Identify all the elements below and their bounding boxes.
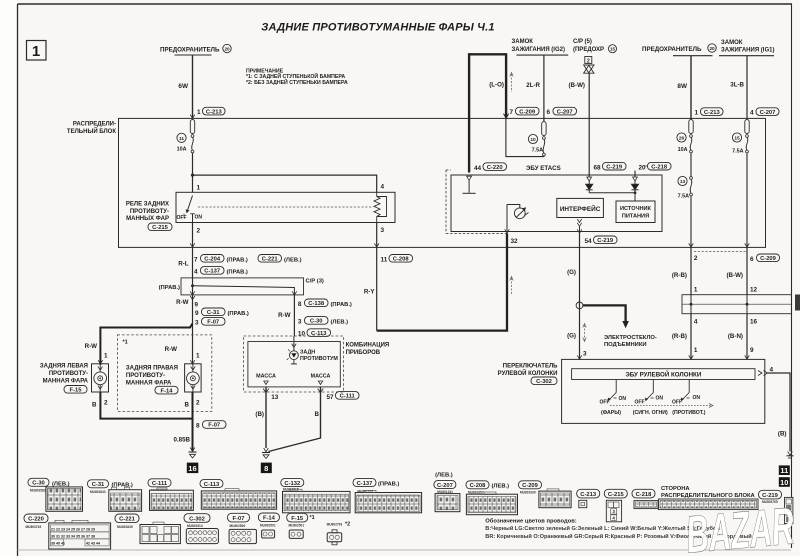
svg-text:(G): (G) bbox=[567, 333, 576, 340]
splice box C/P (3) bbox=[181, 278, 304, 295]
diode D2 (pin 20) bbox=[632, 177, 639, 201]
wire diode bus bbox=[589, 192, 635, 194]
svg-text:MU801845: MU801845 bbox=[117, 525, 133, 529]
wire 8W bbox=[690, 56, 692, 119]
svg-text:ПИТАНИЯ: ПИТАНИЯ bbox=[622, 213, 649, 219]
connector C-221 pinout bbox=[115, 514, 180, 544]
watermark BAZAR bbox=[684, 497, 797, 556]
svg-text:B: B bbox=[92, 402, 97, 409]
svg-text:(R-B): (R-B) bbox=[672, 333, 687, 340]
wire 2L-R bbox=[543, 55, 545, 121]
svg-text:C-209: C-209 bbox=[522, 483, 539, 489]
svg-text:C-220: C-220 bbox=[487, 165, 503, 171]
svg-text:8: 8 bbox=[298, 301, 302, 308]
fuse F15 7.5A in block bbox=[732, 120, 749, 153]
fuse F11 10A in block bbox=[177, 120, 195, 153]
svg-text:MU801514: MU801514 bbox=[187, 524, 203, 528]
label pin 11 C-208 bbox=[381, 255, 413, 264]
splice node S bbox=[576, 302, 583, 309]
svg-text:ON: ON bbox=[693, 395, 701, 401]
svg-text:2: 2 bbox=[694, 255, 698, 262]
svg-text:ON: ON bbox=[195, 214, 203, 220]
cluster entry pin bbox=[292, 344, 297, 348]
svg-text:MU802501: MU802501 bbox=[289, 524, 305, 528]
ground G8 bbox=[262, 448, 270, 459]
svg-text:РАСПРЕДЕЛИТЕЛЬНОГО БЛОКА: РАСПРЕДЕЛИТЕЛЬНОГО БЛОКА bbox=[661, 493, 756, 499]
instrument cluster box КОМБИНАЦИЯ ПРИБОРОВ bbox=[244, 336, 344, 392]
wire R-B pin2 to connector bbox=[690, 247, 692, 294]
svg-text:ПЕРЕКЛЮЧАТЕЛЬ: ПЕРЕКЛЮЧАТЕЛЬ bbox=[503, 364, 558, 370]
svg-text:ПРЕДОХРАНИТЕЛЬ: ПРЕДОХРАНИТЕЛЬ bbox=[642, 46, 702, 53]
svg-text:1: 1 bbox=[197, 185, 201, 192]
svg-text:12: 12 bbox=[750, 286, 758, 293]
svg-text:ЭБУ ETACS: ЭБУ ETACS bbox=[526, 165, 561, 172]
wire (B-W) to ETACS pin 68 bbox=[588, 73, 590, 177]
svg-text:C-220: C-220 bbox=[28, 517, 44, 523]
connector F-14 pinout bbox=[258, 513, 279, 538]
relay box rear fog lamp relay bbox=[176, 192, 395, 222]
thick branch to power windows bbox=[583, 305, 629, 328]
wire fuse26 to fuse13 bbox=[690, 153, 692, 177]
svg-text:MU802501: MU802501 bbox=[260, 524, 276, 528]
direction arrow mark bbox=[510, 73, 513, 93]
svg-text:МАССА: МАССА bbox=[256, 374, 276, 380]
wire junction to relay coil pin4 bbox=[193, 175, 377, 192]
svg-text:C-207: C-207 bbox=[437, 483, 453, 489]
right rear fog lamp label bbox=[126, 366, 178, 387]
svg-text:R-W: R-W bbox=[176, 299, 189, 306]
ignition switch label ЗАМОК ЗАЖИГАНИЯ (IG2) bbox=[512, 39, 569, 55]
svg-text:7: 7 bbox=[194, 257, 198, 264]
wire branch to left lamp bbox=[100, 324, 192, 365]
svg-text:C-209: C-209 bbox=[760, 256, 777, 262]
switch SW1 ФАРЫ bbox=[600, 380, 627, 417]
svg-text:*1: *1 bbox=[310, 515, 315, 521]
relay internal dashed link bbox=[198, 206, 373, 208]
svg-text:F-07: F-07 bbox=[208, 423, 220, 429]
label pin 10 C-113 bbox=[298, 329, 331, 338]
wire from fuse 11 to relay junction bbox=[192, 153, 194, 192]
lamp F-14 pin 2 wire B bbox=[185, 392, 200, 451]
svg-text:(ПРОТИВОТ.): (ПРОТИВОТ.) bbox=[672, 410, 705, 416]
svg-text:ЗАМОК: ЗАМОК bbox=[512, 39, 534, 45]
svg-text:(B): (B) bbox=[255, 411, 264, 418]
svg-text:F-14: F-14 bbox=[263, 516, 276, 522]
svg-text:(ЛЕВ.): (ЛЕВ.) bbox=[331, 319, 349, 325]
svg-text:C-132: C-132 bbox=[284, 481, 300, 487]
svg-text:МАННЫХ ФАР: МАННЫХ ФАР bbox=[126, 216, 169, 222]
svg-text:КОМБИНАЦИЯ: КОМБИНАЦИЯ bbox=[346, 343, 390, 349]
wire R-W left branch below splice bbox=[176, 291, 198, 364]
lamp F-15 pin 2 wire B bbox=[92, 392, 192, 419]
switch link dotted bbox=[610, 404, 713, 408]
svg-text:(ПРАВ.): (ПРАВ.) bbox=[378, 481, 399, 487]
svg-text:MU802793: MU802793 bbox=[327, 522, 343, 526]
svg-text:*2: БЕЗ ЗАДНЕЙ СТУПЕНЬКИ БАМПЕ: *2: БЕЗ ЗАДНЕЙ СТУПЕНЬКИ БАМПЕРА bbox=[246, 78, 348, 86]
label pin 8 C-138 (ПРАВ.) bbox=[298, 299, 352, 308]
sheet number box 1 bbox=[27, 41, 47, 61]
svg-text:(B-W): (B-W) bbox=[569, 82, 586, 89]
svg-text:7: 7 bbox=[510, 109, 514, 116]
connector C-302 pinout bbox=[184, 514, 218, 544]
wire R-Y relay pin3 down bbox=[376, 247, 378, 330]
svg-text:4: 4 bbox=[694, 318, 698, 325]
svg-text:МАССА: МАССА bbox=[311, 374, 331, 380]
svg-text:C-218: C-218 bbox=[651, 164, 668, 170]
interface box ИНТЕРФЕЙС bbox=[557, 198, 604, 217]
pin 1 connector C-213 (left feed) bbox=[190, 107, 225, 118]
svg-text:3: 3 bbox=[381, 227, 385, 234]
svg-text:8: 8 bbox=[196, 423, 200, 430]
wire colour legend bbox=[485, 518, 752, 540]
svg-text:C-204: C-204 bbox=[204, 257, 221, 263]
svg-text:(ФАРЫ): (ФАРЫ) bbox=[601, 410, 621, 416]
svg-text:C-137: C-137 bbox=[357, 481, 373, 487]
svg-text:OFF: OFF bbox=[177, 215, 187, 221]
dashed link below block bottom bbox=[694, 251, 747, 253]
cluster pin 57 C-111 bbox=[318, 389, 359, 401]
svg-text:3L-B: 3L-B bbox=[730, 82, 744, 89]
svg-text:6W: 6W bbox=[178, 83, 189, 90]
svg-text:F-15: F-15 bbox=[291, 516, 304, 522]
svg-text:54: 54 bbox=[585, 238, 593, 245]
direction arrow on pin32 wire bbox=[510, 277, 513, 295]
svg-text:OFF: OFF bbox=[635, 400, 645, 406]
ETACS ECU box bbox=[446, 170, 662, 234]
svg-text:ЗАЖИГАНИЯ (IG2): ЗАЖИГАНИЯ (IG2) bbox=[512, 47, 565, 53]
connector C-218 pinout strip bbox=[632, 489, 758, 509]
cluster pin 13 bbox=[263, 389, 269, 393]
svg-text:ПРОТИВОТУ-: ПРОТИВОТУ- bbox=[130, 209, 169, 215]
lamp F-15 symbol bbox=[92, 364, 109, 392]
fuse F26 10A in block bbox=[677, 120, 693, 153]
ground index box 8 bbox=[261, 463, 272, 474]
column switch output pin 4 bbox=[758, 367, 774, 376]
wire fuse13 to block bottom bbox=[690, 196, 692, 248]
svg-text:1: 1 bbox=[196, 353, 200, 360]
fuse feed label ПРЕДОХРАНИТЕЛЬ 20 (left) bbox=[160, 44, 231, 55]
svg-text:РЕЛЕ ЗАДНИХ: РЕЛЕ ЗАДНИХ bbox=[126, 202, 169, 208]
svg-text:MU802506: MU802506 bbox=[230, 524, 246, 528]
svg-text:C-208: C-208 bbox=[470, 483, 487, 489]
svg-text:20: 20 bbox=[224, 47, 230, 52]
svg-text:ПРОТИВОТУ-: ПРОТИВОТУ- bbox=[49, 371, 88, 377]
connector C-113 pinout bbox=[200, 480, 277, 510]
svg-text:C-137: C-137 bbox=[204, 269, 220, 275]
wire right branch below splice bbox=[292, 291, 297, 336]
page edge tab bbox=[795, 295, 800, 311]
svg-text:1: 1 bbox=[694, 347, 698, 354]
svg-text:(ЛЕВ.): (ЛЕВ.) bbox=[492, 484, 510, 490]
svg-text:C-113: C-113 bbox=[204, 482, 220, 488]
svg-text:СТОРОНА: СТОРОНА bbox=[661, 486, 690, 492]
svg-text:R-W: R-W bbox=[165, 346, 178, 353]
wire B-N to column switch pin9 bbox=[746, 314, 748, 360]
wire fuse10 to pin7 riser bbox=[506, 118, 544, 156]
svg-text:ПРИБОРОВ: ПРИБОРОВ bbox=[346, 350, 381, 356]
wire (G) ETACS pin54 to column switch pin3 bbox=[579, 234, 581, 360]
svg-text:15: 15 bbox=[610, 47, 615, 52]
svg-text:30 31 32 33 34 35 36 37 38: 30 31 32 33 34 35 36 37 38 bbox=[51, 535, 95, 539]
svg-text:B: B bbox=[315, 411, 320, 418]
column switch ECU inner box ЭБУ РУЛЕВОЙ КОЛОНКИ bbox=[572, 369, 755, 380]
pin 6 connector C-207 (block top) bbox=[547, 107, 577, 116]
fuse feed label ПРЕДОХРАНИТЕЛЬ 20 (right) bbox=[642, 44, 716, 56]
svg-text:C-208: C-208 bbox=[393, 257, 410, 263]
relay switch blade OFF/ON bbox=[177, 196, 203, 223]
svg-text:11: 11 bbox=[179, 136, 184, 142]
fuse F10 7.5A in block bbox=[528, 122, 546, 156]
svg-text:(ПРАВ.): (ПРАВ.) bbox=[331, 302, 352, 308]
dashed option box *1 right lamp bbox=[117, 335, 211, 412]
svg-text:*1: *1 bbox=[123, 339, 128, 345]
svg-text:1: 1 bbox=[197, 109, 201, 116]
ground index box 16 bbox=[187, 463, 199, 474]
designator F-15 bbox=[64, 386, 87, 394]
svg-text:10: 10 bbox=[298, 331, 306, 338]
svg-text:(ПРАВ.): (ПРАВ.) bbox=[159, 285, 180, 291]
svg-text:6: 6 bbox=[750, 256, 754, 263]
svg-text:F-15: F-15 bbox=[70, 388, 83, 394]
svg-text:R-W: R-W bbox=[278, 312, 291, 319]
svg-text:ЗАЖИГАНИЯ (IG1): ЗАЖИГАНИЯ (IG1) bbox=[721, 48, 774, 54]
ETACS pin 54 connector C-219 bbox=[577, 229, 617, 245]
label pin 4 C-137 (ПРАВ.) bbox=[194, 267, 248, 276]
svg-text:ЗАДН: ЗАДН bbox=[300, 350, 315, 356]
svg-text:(B): (B) bbox=[778, 431, 787, 438]
svg-text:9: 9 bbox=[195, 310, 199, 317]
svg-text:C-111: C-111 bbox=[152, 481, 168, 487]
connector C-219 pinout bbox=[759, 490, 793, 523]
svg-text:26: 26 bbox=[679, 136, 685, 142]
svg-text:(B-N): (B-N) bbox=[728, 333, 743, 340]
pin 4 connector C-207 (right feed) bbox=[750, 108, 779, 117]
svg-text:C-215: C-215 bbox=[152, 225, 169, 231]
svg-text:ЭЛЕКТРОСТЕКЛО-: ЭЛЕКТРОСТЕКЛО- bbox=[604, 335, 657, 341]
svg-text:2: 2 bbox=[196, 400, 200, 407]
svg-text:С/Р (3): С/Р (3) bbox=[306, 279, 324, 285]
thick wire (L-O) to ETACS pin 44 bbox=[469, 54, 506, 172]
svg-text:MU801939: MU801939 bbox=[520, 491, 536, 495]
wire C-218 feed into ETACS bbox=[634, 171, 636, 178]
svg-text:7.5A: 7.5A bbox=[532, 148, 543, 154]
svg-text:10A: 10A bbox=[177, 147, 187, 153]
svg-text:(R-B): (R-B) bbox=[672, 272, 687, 279]
svg-text:C-213: C-213 bbox=[206, 109, 223, 115]
pin 20 connector C-218 bbox=[639, 162, 672, 171]
connector C-111 pinout bbox=[148, 479, 193, 511]
wire 6W from fuse 20 bbox=[192, 55, 194, 118]
page index black box 11 bbox=[779, 465, 790, 475]
page index black box 10 bbox=[779, 477, 790, 487]
connector C-215 pinout bbox=[604, 489, 627, 522]
svg-text:МАННАЯ ФАРА: МАННАЯ ФАРА bbox=[43, 379, 89, 385]
svg-text:3: 3 bbox=[583, 351, 587, 358]
svg-text:MU801843: MU801843 bbox=[90, 490, 106, 494]
pin 44 connector C-220 bbox=[474, 163, 507, 172]
connector C-31 pinout bbox=[88, 480, 142, 512]
connector C-30 pinout bbox=[28, 478, 83, 511]
svg-text:57: 57 bbox=[327, 394, 335, 401]
svg-text:9: 9 bbox=[195, 301, 199, 308]
svg-text:РУЛЕВОЙ КОЛОНКИ: РУЛЕВОЙ КОЛОНКИ bbox=[498, 369, 558, 377]
switch SW3 ПРОТИВОТ bbox=[672, 380, 706, 417]
relay label РЕЛЕ ЗАДНИХ ПРОТИВОТУМАННЫХ ФАР bbox=[126, 202, 169, 223]
label pin 3 F-07 bbox=[195, 318, 225, 327]
fusible link symbol 2 bbox=[584, 57, 594, 74]
svg-text:C-207: C-207 bbox=[760, 110, 776, 116]
svg-text:16: 16 bbox=[188, 464, 196, 473]
svg-text:2L-R: 2L-R bbox=[526, 82, 540, 89]
svg-text:20: 20 bbox=[639, 165, 647, 172]
svg-text:MU801582: MU801582 bbox=[30, 489, 46, 493]
svg-text:*2: *2 bbox=[345, 522, 350, 528]
svg-text:32: 32 bbox=[511, 238, 519, 245]
C/P (5) fusible link label bbox=[573, 39, 617, 53]
connector MU802793 *2 pinout bbox=[327, 522, 351, 545]
svg-text:2: 2 bbox=[587, 59, 590, 65]
svg-text:1: 1 bbox=[104, 353, 108, 360]
wire (B) pin13 to ground bbox=[265, 387, 267, 448]
connector C-137 pinout bbox=[353, 479, 422, 513]
svg-text:16: 16 bbox=[750, 318, 758, 325]
wire relay pin2 to block bottom bbox=[192, 223, 194, 248]
svg-text:C-209: C-209 bbox=[519, 109, 536, 115]
connector C-207 pinout bbox=[434, 473, 460, 512]
svg-text:10A: 10A bbox=[678, 147, 688, 153]
svg-text:C-219: C-219 bbox=[606, 164, 623, 170]
svg-text:OFF: OFF bbox=[600, 400, 610, 406]
svg-text:ЗАДНЯЯ ЛЕВАЯ: ЗАДНЯЯ ЛЕВАЯ bbox=[40, 364, 88, 370]
svg-text:2: 2 bbox=[104, 400, 108, 407]
label pin 9 C-31 (ПРАВ.) bbox=[195, 308, 249, 317]
svg-text:11: 11 bbox=[780, 466, 788, 475]
svg-text:4: 4 bbox=[381, 184, 385, 191]
svg-text:(ПРЕДОХР: (ПРЕДОХР bbox=[573, 47, 604, 53]
wire B pin57 to ground bbox=[269, 387, 321, 452]
svg-text:ПРОТИВОТУМ: ПРОТИВОТУМ bbox=[300, 356, 338, 362]
svg-text:C/P (5): C/P (5) bbox=[573, 39, 592, 45]
svg-text:ПОДЪЕМНИКИ: ПОДЪЕМНИКИ bbox=[604, 342, 647, 348]
intermediate connector joint bbox=[682, 295, 792, 314]
svg-text:MU803745: MU803745 bbox=[26, 525, 42, 529]
svg-text:C-213: C-213 bbox=[704, 110, 721, 116]
svg-text:(ПРАВ.): (ПРАВ.) bbox=[227, 269, 248, 275]
svg-text:(B-W): (B-W) bbox=[727, 272, 744, 279]
wire R-B to column switch pin1 bbox=[690, 314, 692, 360]
svg-text:OFF: OFF bbox=[672, 400, 682, 406]
left rear fog lamp label bbox=[40, 364, 89, 385]
svg-text:F-07: F-07 bbox=[233, 516, 245, 522]
svg-text:ON: ON bbox=[619, 396, 627, 402]
wire fuse15 to block bottom bbox=[746, 153, 748, 248]
svg-text:39 40 41: 39 40 41 bbox=[51, 542, 65, 546]
diode D1 (pin 68) bbox=[586, 177, 593, 193]
svg-text:ТЕЛЬНЫЙ БЛОК: ТЕЛЬНЫЙ БЛОК bbox=[67, 127, 116, 135]
svg-text:ON: ON bbox=[656, 396, 664, 402]
svg-text:3: 3 bbox=[195, 319, 199, 326]
connector C-213 pinout bbox=[577, 489, 600, 507]
wire B-W pin6 C-209 to connector bbox=[727, 243, 780, 294]
svg-text:ЗАДНЯЯ ПРАВАЯ: ЗАДНЯЯ ПРАВАЯ bbox=[126, 366, 178, 372]
pin 68 connector C-219 bbox=[594, 162, 627, 171]
label pin 8 F-07 bbox=[196, 421, 226, 430]
svg-text:ЗАМОК: ЗАМОК bbox=[721, 40, 743, 46]
svg-text:C-302: C-302 bbox=[189, 516, 205, 522]
ETACS output driver symbol bbox=[507, 205, 529, 228]
svg-text:(ПРАВ.): (ПРАВ.) bbox=[227, 257, 248, 263]
svg-text:6: 6 bbox=[547, 109, 551, 116]
svg-text:20: 20 bbox=[709, 46, 715, 51]
svg-text:РАСПРЕДЕЛИ-: РАСПРЕДЕЛИ- bbox=[73, 122, 116, 128]
connector C-209 pinout bbox=[519, 481, 572, 508]
svg-text:C-138: C-138 bbox=[308, 301, 325, 307]
svg-text:(ЛЕВ.): (ЛЕВ.) bbox=[435, 473, 453, 479]
svg-text:7.5A: 7.5A bbox=[732, 148, 743, 154]
svg-text:R-Y: R-Y bbox=[364, 289, 376, 296]
svg-text:1: 1 bbox=[694, 286, 698, 293]
node junction relay feed bbox=[191, 174, 194, 177]
svg-text:C-219: C-219 bbox=[597, 238, 614, 244]
connector C-132 pinout bbox=[281, 479, 350, 513]
splice internal wires bbox=[193, 278, 295, 295]
svg-text:10: 10 bbox=[780, 478, 788, 487]
svg-text:8: 8 bbox=[264, 464, 268, 473]
thick wire ETACS pin32 to column switch bbox=[377, 234, 507, 331]
svg-text:C-221: C-221 bbox=[119, 517, 136, 523]
svg-text:(ПРАВ.): (ПРАВ.) bbox=[228, 311, 249, 317]
svg-text:C-31: C-31 bbox=[92, 482, 105, 488]
svg-text:C-215: C-215 bbox=[608, 492, 625, 498]
column switch box ПЕРЕКЛЮЧАТЕЛЬ РУЛЕВОЙ КОЛОНКИ bbox=[562, 359, 765, 423]
svg-text:ПРОТИВОТУ-: ПРОТИВОТУ- bbox=[126, 373, 165, 379]
svg-text:7.5A: 7.5A bbox=[678, 194, 689, 200]
svg-text:(G): (G) bbox=[567, 269, 576, 276]
svg-text:C-31: C-31 bbox=[207, 310, 220, 316]
connector C-208 pinout bbox=[466, 481, 518, 515]
svg-text:R-W: R-W bbox=[85, 343, 98, 350]
svg-text:(L-O): (L-O) bbox=[489, 82, 504, 89]
relay coil bbox=[374, 192, 387, 222]
svg-text:2: 2 bbox=[197, 228, 201, 235]
switch SW2 СИГН ОГНИ bbox=[633, 380, 668, 417]
relay designator C-215 bbox=[148, 223, 172, 231]
svg-text:C-30: C-30 bbox=[32, 481, 45, 487]
svg-text:11: 11 bbox=[381, 257, 388, 264]
svg-text:C-111: C-111 bbox=[340, 394, 356, 400]
svg-text:(ЛЕВ.): (ЛЕВ.) bbox=[284, 257, 302, 263]
svg-text:8W: 8W bbox=[677, 83, 688, 90]
svg-text:4: 4 bbox=[194, 269, 198, 276]
svg-text:C-221: C-221 bbox=[262, 257, 279, 263]
svg-text:C-218: C-218 bbox=[636, 492, 653, 498]
lamp F-14 symbol bbox=[185, 364, 202, 392]
svg-text:C-207: C-207 bbox=[557, 109, 573, 115]
designator C-302 bbox=[531, 377, 557, 385]
label pin 7 C-204 (ПРАВ.) C-221 (ЛЕВ.) bbox=[194, 255, 302, 264]
svg-text:42 43 44: 42 43 44 bbox=[86, 542, 100, 546]
svg-text:1: 1 bbox=[695, 110, 699, 117]
connector F-15 pinout bbox=[287, 513, 315, 538]
svg-text:ЭБУ РУЛЕВОЙ КОЛОНКИ: ЭБУ РУЛЕВОЙ КОЛОНКИ bbox=[625, 371, 702, 379]
connector C-220 pinout bbox=[24, 514, 111, 549]
wire R-L block to splice box bbox=[192, 247, 194, 278]
svg-text:C-302: C-302 bbox=[536, 379, 552, 385]
svg-text:3: 3 bbox=[298, 318, 302, 325]
interface lower stub bbox=[577, 219, 581, 234]
svg-text:1: 1 bbox=[32, 43, 40, 60]
svg-text:R-L: R-L bbox=[178, 261, 189, 268]
